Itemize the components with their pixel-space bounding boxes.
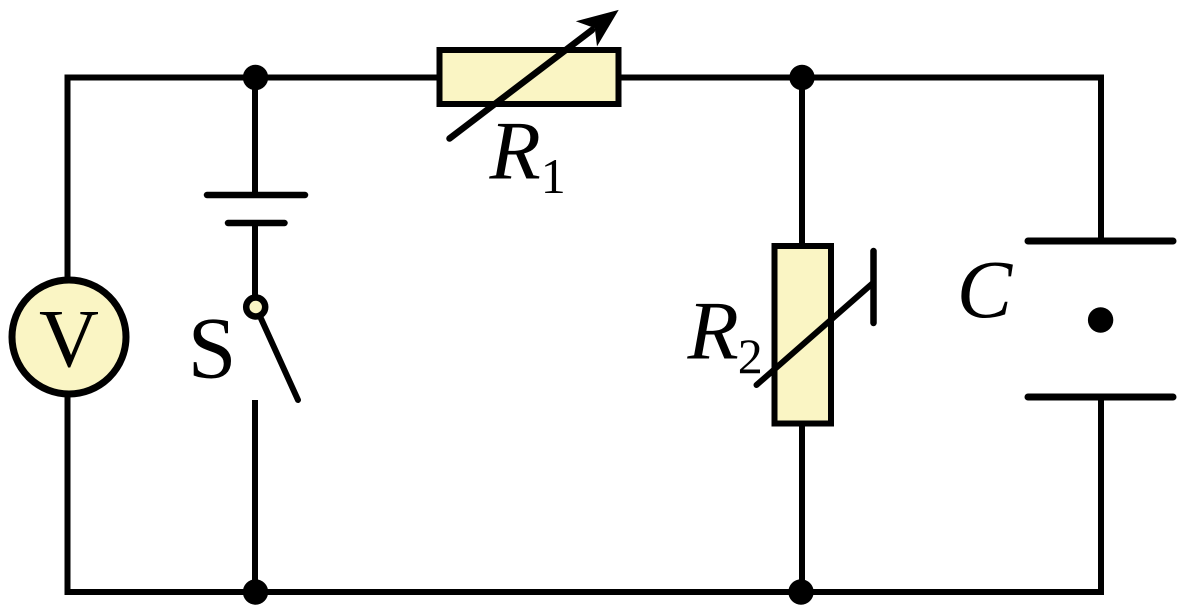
resistor R2 body — [775, 246, 832, 424]
switch S blade — [261, 319, 298, 401]
resistor R1 body — [440, 50, 619, 104]
resistor R2 slider diagonal — [757, 283, 874, 386]
svg-text:C: C — [957, 243, 1014, 335]
capacitor C bottom plate — [1028, 394, 1173, 401]
svg-text:R: R — [489, 105, 541, 198]
resistor R2 slider bar — [870, 251, 877, 323]
node junction bottom-left — [243, 579, 268, 604]
wire bottom rail — [68, 589, 1102, 595]
switch S pivot — [246, 298, 265, 317]
resistor R1 arrow shaft — [450, 30, 593, 139]
node junction top-right — [789, 65, 814, 90]
wire battery to switch — [252, 223, 258, 296]
battery short plate — [228, 220, 285, 227]
wire top rail — [68, 75, 1102, 81]
svg-text:V: V — [39, 293, 99, 385]
label R2 — [687, 285, 763, 385]
svg-text:2: 2 — [738, 328, 763, 384]
battery long plate — [207, 192, 305, 199]
wire left side upper — [65, 78, 71, 280]
wire battery branch upper — [252, 78, 258, 196]
capacitor charge dot — [1088, 307, 1113, 332]
wire left side lower — [65, 396, 71, 592]
wire switch to bottom — [252, 400, 258, 592]
wire R2 branch upper — [799, 78, 805, 244]
capacitor C top plate — [1028, 238, 1173, 245]
wire R2 to bottom — [799, 426, 805, 592]
svg-text:R: R — [687, 285, 739, 378]
wire right side lower — [1098, 397, 1104, 592]
voltmeter V — [12, 280, 126, 394]
resistor R1 arrow head — [576, 10, 619, 47]
label R1 — [489, 105, 566, 205]
wire right side upper — [1098, 78, 1104, 242]
svg-text:S: S — [188, 300, 237, 397]
svg-text:1: 1 — [541, 148, 566, 204]
node junction top-left — [243, 65, 268, 90]
node junction bottom-right — [788, 579, 813, 604]
